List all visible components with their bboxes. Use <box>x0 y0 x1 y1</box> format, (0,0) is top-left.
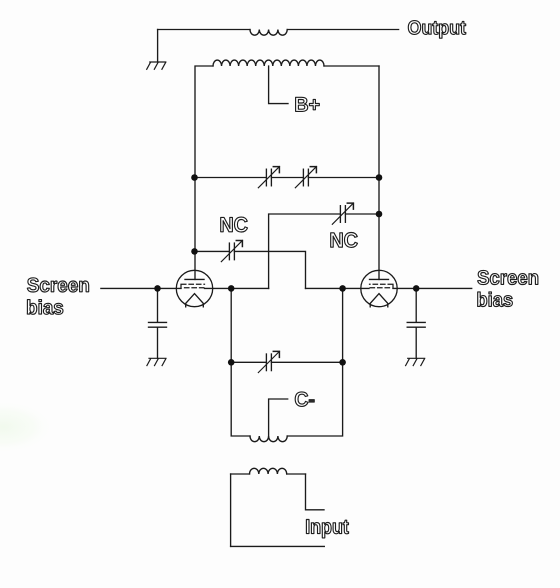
wire right bypass down <box>415 288 417 322</box>
wire tuning row right <box>308 177 379 179</box>
node dot right rail tuning <box>376 174 383 181</box>
node dot right rail NC1 <box>376 211 383 218</box>
label Input <box>306 520 348 538</box>
wire output link top <box>158 29 250 31</box>
wire left bypass down <box>157 288 159 322</box>
node dot left screen <box>154 285 161 292</box>
wire left bypass to ground <box>157 327 159 358</box>
inductor L4 input link <box>250 468 287 474</box>
ground G2 <box>147 358 166 365</box>
wire right plate rail <box>378 66 380 279</box>
node dot left rail tuning <box>191 174 198 181</box>
wire screen bias right <box>393 287 472 289</box>
capacitor NC1 variable <box>332 203 353 224</box>
node dot right grid <box>339 285 346 292</box>
label C- <box>295 392 314 407</box>
wire input link top <box>231 473 250 475</box>
tube V2 control grid (dashed) <box>369 287 390 289</box>
wire grid tank left rail <box>231 362 250 436</box>
tube V2 filament <box>370 294 388 307</box>
wire tuning row mid <box>271 177 303 179</box>
wire left grid down <box>230 288 232 362</box>
capacitor C5 bypass right <box>407 322 425 327</box>
wire grid tank right rail <box>287 362 342 436</box>
label Screen <box>27 278 88 292</box>
node dot grid tank right <box>339 359 346 366</box>
inductor L3 grid tank <box>250 436 287 442</box>
label C- hyphen fill <box>309 399 315 402</box>
label bias <box>478 292 513 307</box>
capacitor C4 bypass left <box>149 322 167 327</box>
inductor L2 plate tank <box>213 60 324 66</box>
tube V2 screen grid (dashed) <box>370 284 394 288</box>
wire tank top right <box>324 65 379 67</box>
ground G1 <box>147 62 166 69</box>
label NC <box>221 217 248 232</box>
wire input left side <box>230 474 232 546</box>
wire NC2 to right grid <box>234 251 305 288</box>
node dot left grid <box>228 285 235 292</box>
wire right grid <box>306 287 370 289</box>
tube V1 envelope <box>176 270 212 306</box>
green artifact smudge <box>0 400 55 454</box>
wire grid tank row left <box>231 361 266 363</box>
wire input bottom <box>231 545 325 547</box>
label B+ <box>296 97 320 111</box>
wire left grid <box>205 287 269 289</box>
capacitor C2 variable <box>295 167 316 188</box>
tube V1 filament <box>186 294 204 307</box>
inductor L1 output link <box>250 30 287 36</box>
wire NC2 row (left plate to right grid) <box>195 250 230 252</box>
label NC <box>331 233 358 248</box>
wire input right lead <box>306 474 325 510</box>
wire right bypass to ground <box>415 327 417 358</box>
label Output <box>408 21 466 39</box>
wire screen bias left <box>101 287 181 289</box>
node dot right screen <box>413 285 420 292</box>
wire output right <box>287 29 398 31</box>
node dot left rail NC2 <box>191 248 198 255</box>
label bias <box>27 300 63 315</box>
wire NC1 row (right plate to left grid) <box>269 214 341 288</box>
tube V1 control grid (dashed) <box>185 287 205 289</box>
wire B+ tap <box>269 66 288 104</box>
node dot grid tank left <box>228 359 235 366</box>
wire output down to ground <box>157 30 159 63</box>
tube V1 plate <box>185 278 204 280</box>
tube V2 plate <box>370 278 389 280</box>
ground G3 <box>406 358 425 365</box>
wire C- tap <box>269 399 288 436</box>
tube V2 envelope <box>361 270 397 306</box>
wire grid tank row right <box>271 361 342 363</box>
wire left plate rail <box>195 66 213 279</box>
capacitor NC2 variable <box>221 241 242 262</box>
capacitor C3 variable grid <box>258 351 279 372</box>
label Screen <box>478 270 538 284</box>
wire NC1 to right rail <box>345 213 379 215</box>
tube V1 screen grid (dashed) <box>181 284 205 288</box>
capacitor C1 variable <box>258 167 279 188</box>
wire right grid down <box>342 288 344 362</box>
wire tuning row left <box>195 177 267 179</box>
wire input link top right <box>287 473 306 475</box>
